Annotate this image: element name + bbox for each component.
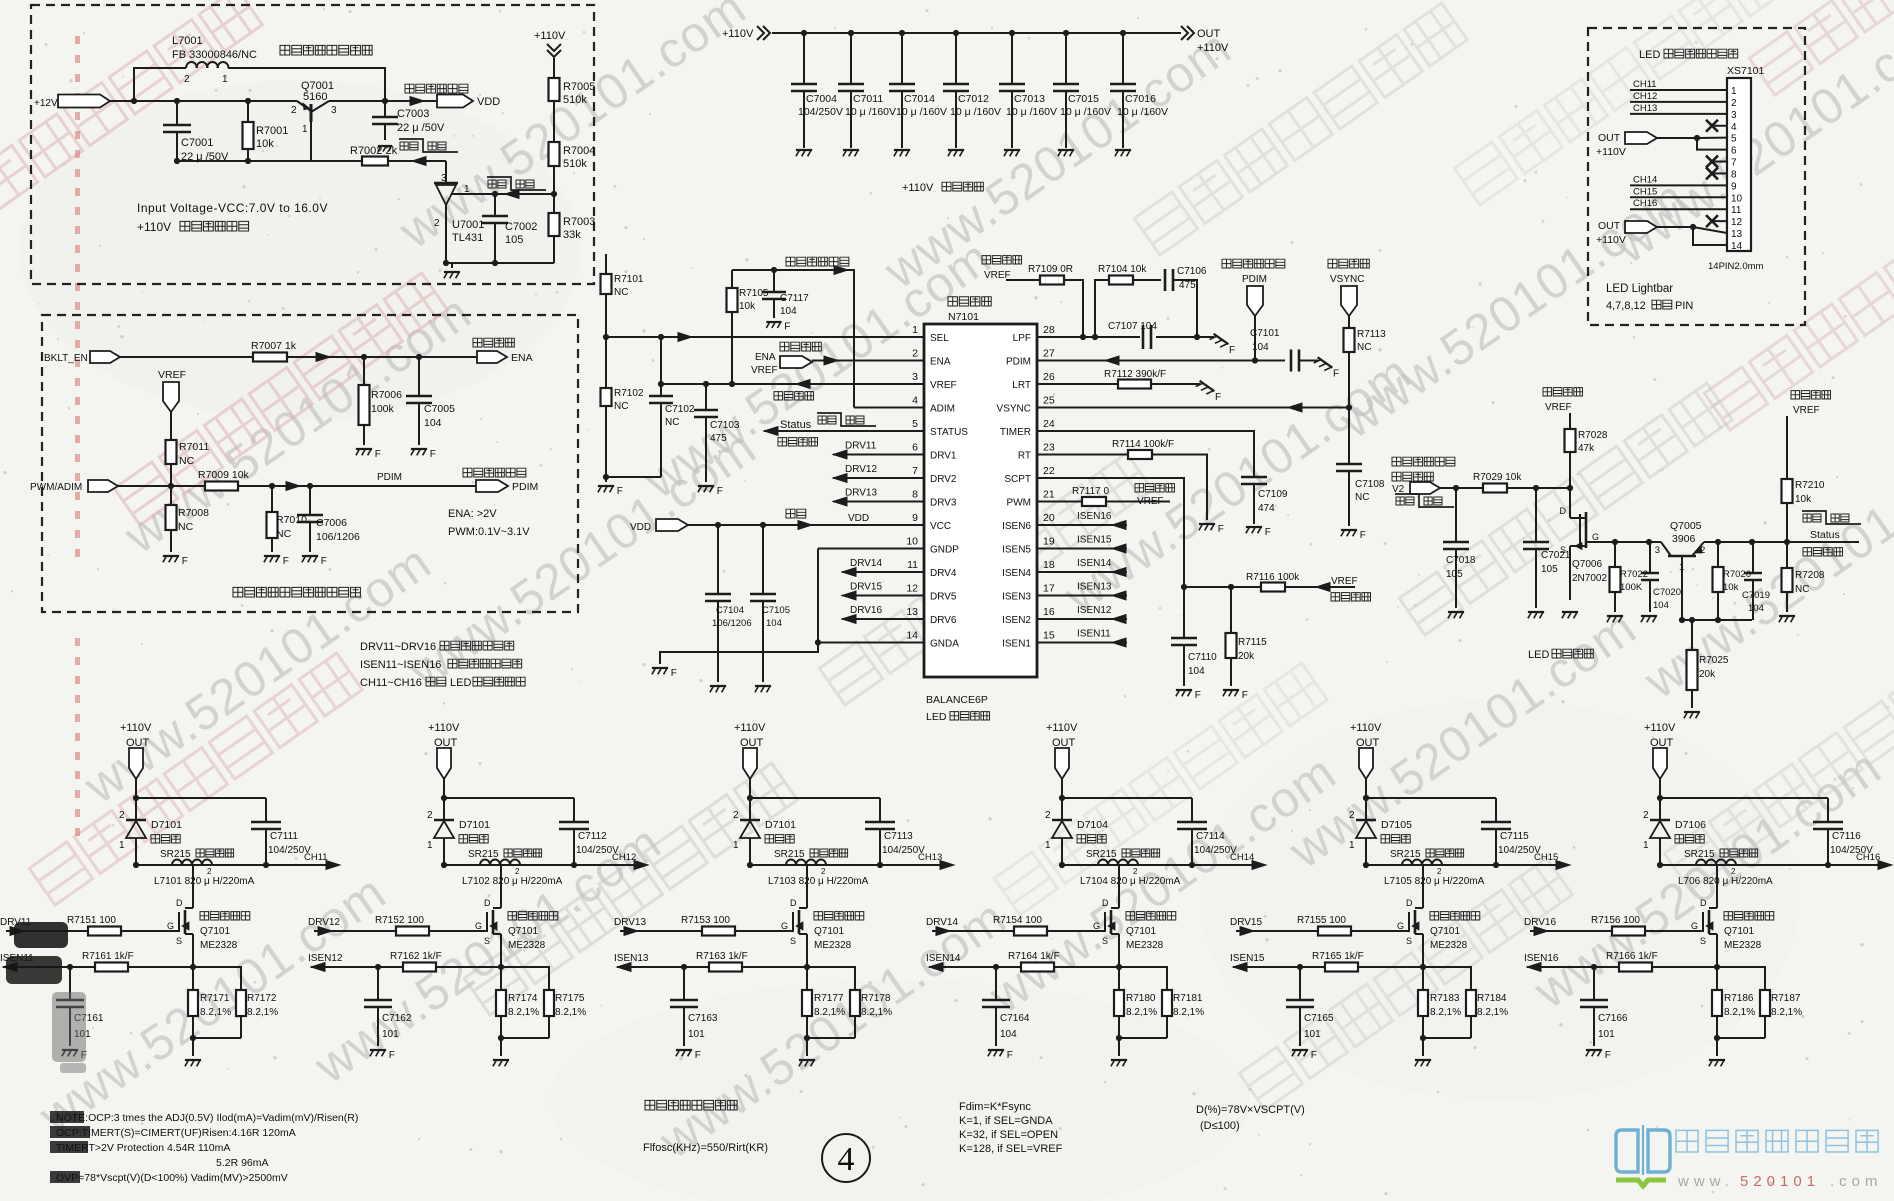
svg-text:ISEN5: ISEN5 [1002, 545, 1031, 556]
svg-text:VDD: VDD [630, 522, 651, 533]
svg-text:510k: 510k [563, 94, 587, 106]
node CH16 output [1878, 861, 1892, 870]
svg-text:104: 104 [424, 417, 442, 429]
svg-text:R7113: R7113 [1357, 329, 1386, 340]
resistor R7011 [170, 439, 172, 441]
svg-text:F: F [321, 556, 327, 567]
svg-text:4: 4 [1731, 122, 1737, 133]
inductor L7104 [1098, 860, 1108, 865]
svg-text:D7105: D7105 [1381, 819, 1412, 831]
label driver circuit title [948, 297, 991, 306]
svg-text:CH15: CH15 [1534, 852, 1558, 863]
wire source resistor bus [1118, 1016, 1120, 1038]
svg-text:+110V: +110V [120, 722, 152, 734]
svg-text:ISEN4: ISEN4 [1002, 568, 1031, 579]
svg-text:2: 2 [1731, 98, 1737, 109]
resistor R7028 [1569, 413, 1571, 429]
svg-text:LED: LED [450, 677, 471, 689]
wire status line left [1586, 541, 1661, 543]
capacitor C7004 [801, 30, 807, 36]
inductor L7102 [480, 860, 490, 865]
svg-text:12: 12 [1731, 217, 1743, 228]
svg-text:15: 15 [1043, 630, 1055, 642]
svg-text:C7005: C7005 [424, 403, 455, 415]
label thyristor protect text [1392, 457, 1455, 466]
svg-text:VREF: VREF [1331, 576, 1358, 587]
svg-text:PDIM: PDIM [377, 472, 402, 483]
svg-text:3: 3 [1731, 110, 1737, 121]
svg-text:475: 475 [1179, 280, 1196, 291]
svg-text:105: 105 [1446, 569, 1463, 580]
svg-text:47k: 47k [1578, 443, 1595, 454]
svg-text:28: 28 [1043, 324, 1055, 336]
svg-text:R7008: R7008 [178, 507, 209, 519]
mosfet Q7101 CH15 [1422, 865, 1424, 908]
svg-text:C7166: C7166 [1598, 1013, 1628, 1024]
svg-text:101: 101 [1598, 1029, 1615, 1040]
svg-text:DRV13: DRV13 [845, 488, 877, 499]
ground [766, 321, 781, 323]
svg-text:R7166 1k/F: R7166 1k/F [1606, 951, 1658, 962]
svg-text:9: 9 [1731, 181, 1737, 192]
wire GNDA pin14 [818, 642, 924, 644]
shunt ref U7001 TL431 [445, 161, 447, 183]
resistor R7004 [553, 141, 555, 143]
svg-text:F: F [1195, 690, 1201, 701]
svg-text:S: S [176, 936, 182, 946]
wire LPF pin28 [1037, 336, 1140, 338]
svg-text:TIMER: TIMER [1000, 427, 1031, 438]
no-connect X pin 12 [1714, 220, 1727, 222]
svg-text:D: D [1406, 898, 1413, 908]
svg-text:DRV3: DRV3 [930, 498, 957, 509]
svg-text:1: 1 [1731, 86, 1737, 97]
svg-text:3: 3 [912, 371, 918, 383]
protect/normal annotation [1803, 514, 1821, 522]
svg-text:CH11: CH11 [1633, 79, 1657, 90]
connector ENA output [477, 351, 507, 363]
svg-text:C7165: C7165 [1304, 1013, 1334, 1024]
svg-text:OVP=78*Vscpt(V)(D<100%) Va: OVP=78*Vscpt(V)(D<100%) Vadim(MV)>2500mV [56, 1172, 288, 1184]
svg-text:D7106: D7106 [1675, 819, 1706, 831]
svg-text:Status: Status [1810, 529, 1840, 541]
svg-text:C7104: C7104 [716, 605, 744, 616]
svg-text:R7102: R7102 [614, 388, 644, 399]
svg-text:D7101: D7101 [459, 819, 490, 831]
capacitor C7109 [1253, 476, 1255, 478]
svg-text:NC: NC [1357, 342, 1371, 353]
svg-text:S: S [484, 936, 490, 946]
svg-text:DRV5: DRV5 [930, 592, 957, 603]
svg-text:R7174: R7174 [508, 993, 538, 1004]
svg-text:R7006: R7006 [371, 389, 402, 401]
svg-text:L7103 820 μ H/220mA: L7103 820 μ H/220mA [768, 876, 869, 887]
svg-text:G: G [1691, 921, 1698, 931]
svg-text:R7161 1k/F: R7161 1k/F [82, 951, 134, 962]
svg-text:C7162: C7162 [382, 1013, 412, 1024]
wire lower rail [1062, 864, 1258, 866]
svg-text:F: F [1265, 527, 1271, 538]
capacitor C7002 [492, 191, 498, 197]
svg-text:19: 19 [1043, 536, 1055, 548]
svg-text:VREF: VREF [930, 380, 957, 391]
resistor R7187 [1717, 967, 1765, 990]
svg-text:D: D [1700, 898, 1707, 908]
svg-text:OUT: OUT [1598, 220, 1621, 232]
svg-text:12: 12 [906, 583, 918, 595]
resistor R7184 [1423, 967, 1471, 990]
svg-text:C7002: C7002 [505, 221, 537, 233]
label reference voltage VREF [982, 256, 1022, 264]
svg-text:2: 2 [821, 867, 826, 876]
resistor R7022 [1614, 542, 1616, 567]
resistor R7183 [1422, 967, 1424, 990]
svg-text:25: 25 [1043, 395, 1055, 407]
ground [1586, 1049, 1602, 1051]
svg-text:+110V: +110V [1596, 146, 1626, 158]
capacitor C7013 [1009, 30, 1015, 36]
svg-text:PDIM: PDIM [1242, 274, 1267, 285]
svg-text:2N7002: 2N7002 [1572, 573, 1607, 584]
svg-text:2: 2 [1349, 810, 1355, 821]
svg-text:SR215: SR215 [468, 849, 499, 860]
svg-text:C7115: C7115 [1500, 831, 1529, 842]
svg-text:PWM/ADIM: PWM/ADIM [30, 482, 82, 493]
svg-text:F: F [182, 556, 188, 567]
svg-text:2: 2 [1045, 810, 1051, 821]
diode D7104 freewheel [1061, 798, 1063, 820]
svg-text:R7208: R7208 [1795, 570, 1825, 581]
svg-text:104: 104 [780, 306, 797, 317]
wire to pin 14 [1693, 227, 1727, 245]
svg-text:OCP:TIMERT(S)=CIMERT(UF)Risen:: OCP:TIMERT(S)=CIMERT(UF)Risen:4.16R 120m… [56, 1127, 296, 1139]
svg-text:16: 16 [1043, 606, 1055, 618]
svg-text:Input Voltage-VCC:7.0V to 16.0: Input Voltage-VCC:7.0V to 16.0V [137, 201, 328, 215]
svg-text:ME2328: ME2328 [1724, 940, 1762, 951]
svg-text:ENA: ENA [511, 352, 533, 364]
capacitor C7020 [1649, 542, 1651, 573]
svg-text:R7114 100k/F: R7114 100k/F [1112, 439, 1174, 450]
capacitor C7014 [899, 30, 905, 36]
wire lower rail [1366, 864, 1562, 866]
svg-text:STATUS: STATUS [930, 427, 968, 438]
capacitor C7108 [1348, 408, 1350, 465]
svg-text:ISEN14: ISEN14 [1077, 558, 1112, 569]
svg-text:LRT: LRT [1012, 380, 1031, 391]
node CH12 output [634, 861, 648, 870]
node VREF pullup [1543, 388, 1583, 396]
svg-text:SR215: SR215 [774, 849, 805, 860]
wire SCPT pin22 [1037, 478, 1184, 587]
connector PDIM input [1222, 259, 1285, 268]
svg-text:10 μ /160V: 10 μ /160V [1060, 106, 1111, 118]
ground [493, 1059, 509, 1061]
svg-text:C7111: C7111 [270, 831, 298, 842]
svg-text:NC: NC [178, 521, 194, 533]
svg-text:106/1206: 106/1206 [316, 531, 360, 543]
svg-text:F: F [617, 486, 623, 497]
resistor R7180 [1118, 967, 1120, 990]
svg-text:10 μ /160V: 10 μ /160V [950, 106, 1001, 118]
svg-text:2: 2 [1731, 867, 1736, 876]
svg-text:10 μ /160V: 10 μ /160V [896, 106, 947, 118]
wire status line right [1704, 541, 1859, 543]
svg-text:R7029 10k: R7029 10k [1473, 472, 1522, 483]
svg-text:Q7006: Q7006 [1572, 559, 1602, 570]
svg-text:NC: NC [1795, 584, 1809, 595]
svg-text:1: 1 [119, 840, 125, 851]
svg-text:22: 22 [1043, 465, 1055, 477]
svg-text:CH12: CH12 [612, 852, 636, 863]
wire lower rail [444, 864, 640, 866]
svg-text:10 μ /160V: 10 μ /160V [1006, 106, 1057, 118]
logo green underline [1616, 1180, 1666, 1186]
capacitor C7164 [995, 967, 997, 1000]
svg-text:.com: .com [1830, 1173, 1883, 1190]
svg-text:2: 2 [427, 810, 433, 821]
svg-text:104: 104 [766, 618, 782, 629]
ground [843, 149, 859, 151]
ground [1196, 381, 1215, 397]
capacitor C7113 [879, 798, 881, 822]
ground [1246, 526, 1262, 528]
capacitor C7166 [1593, 967, 1595, 1000]
svg-text:R7162 1k/F: R7162 1k/F [390, 951, 442, 962]
svg-text:D: D [484, 898, 491, 908]
wire V2 line [1440, 487, 1483, 489]
wire ref pin [451, 193, 554, 195]
svg-text:LED: LED [1639, 49, 1660, 61]
resistor R7178 [807, 967, 855, 990]
svg-text:SEL: SEL [930, 333, 949, 344]
channel 1 scanner smudges [14, 922, 68, 948]
svg-text:R7152 100: R7152 100 [375, 915, 424, 926]
mosfet Q7006 [1569, 488, 1571, 518]
svg-text:C7164: C7164 [1000, 1013, 1030, 1024]
svg-text:R7025: R7025 [1699, 655, 1729, 666]
diode D7101 freewheel [443, 798, 445, 820]
svg-text:+110V: +110V [722, 28, 754, 40]
svg-text:14PIN2.0mm: 14PIN2.0mm [1708, 261, 1764, 272]
svg-text:ENA: >2V: ENA: >2V [448, 508, 497, 520]
svg-text:NOTE:OCP:3 tmes the ADJ(0.5V): NOTE:OCP:3 tmes the ADJ(0.5V) Ilod(mA)=V… [56, 1112, 358, 1124]
svg-text:1: 1 [1643, 840, 1649, 851]
svg-text:F: F [695, 1050, 701, 1061]
ground [796, 149, 812, 151]
ground [163, 555, 179, 557]
node on rail [131, 98, 137, 104]
svg-text:G: G [1397, 921, 1404, 931]
mosfet Q7101 CH12 [500, 865, 502, 908]
ground [1115, 149, 1131, 151]
ground [1562, 611, 1578, 613]
svg-text:XS7101: XS7101 [1727, 65, 1765, 77]
svg-text:F: F [1242, 690, 1248, 701]
svg-text:G: G [1592, 532, 1599, 542]
wire PDIM pin27 [1037, 360, 1285, 362]
svg-text:13: 13 [906, 606, 918, 618]
ground [1210, 334, 1229, 350]
svg-text:C7116: C7116 [1832, 831, 1861, 842]
svg-text:G: G [475, 921, 482, 931]
svg-text:DRV2: DRV2 [930, 474, 957, 485]
ground [411, 448, 427, 450]
ground [264, 555, 280, 557]
svg-text:SR215: SR215 [1390, 849, 1421, 860]
svg-text:104: 104 [1748, 603, 1764, 614]
svg-text:NC: NC [614, 401, 628, 412]
svg-text:520101: 520101 [1740, 1173, 1820, 1190]
svg-text:R7002 2k: R7002 2k [350, 145, 398, 157]
svg-text:105: 105 [505, 234, 523, 246]
svg-text:R7011: R7011 [179, 441, 209, 453]
capacitor C7016 [1120, 30, 1126, 36]
svg-text:D: D [790, 898, 797, 908]
svg-text:10k: 10k [256, 138, 274, 150]
svg-text:Q7101: Q7101 [200, 926, 230, 937]
svg-text:22 μ /50V: 22 μ /50V [397, 122, 445, 134]
svg-text:F: F [1311, 1050, 1317, 1061]
ground [710, 685, 726, 687]
svg-text:S: S [1700, 936, 1706, 946]
svg-text:8.2,1%: 8.2,1% [861, 1007, 892, 1018]
wire top rail [136, 797, 266, 799]
wire source to ground [1569, 546, 1571, 600]
svg-text:3: 3 [441, 173, 447, 184]
svg-text:18: 18 [1043, 559, 1055, 571]
wire VSYNC pin25 [1037, 407, 1349, 409]
inductor L7103 [786, 860, 796, 865]
svg-text:R7187: R7187 [1771, 993, 1801, 1004]
capacitor C7162 [377, 967, 379, 1000]
svg-text:R7172: R7172 [247, 993, 277, 1004]
ground [1314, 357, 1333, 373]
svg-text:VDD: VDD [848, 513, 869, 524]
svg-text:R7116 100k: R7116 100k [1246, 572, 1300, 583]
svg-text:5.2R 96mA: 5.2R 96mA [216, 1157, 269, 1169]
svg-text:F: F [283, 556, 289, 567]
svg-text:R7104 10k: R7104 10k [1098, 264, 1147, 275]
svg-text:474: 474 [1258, 503, 1275, 514]
capacitor C7005 [418, 357, 420, 396]
svg-text:PDIM: PDIM [1006, 357, 1031, 368]
svg-text:R7022: R7022 [1620, 569, 1648, 580]
svg-text:2: 2 [1437, 867, 1442, 876]
svg-text:S: S [1560, 545, 1566, 555]
svg-text:DRV14: DRV14 [926, 917, 958, 928]
svg-text:L706 820 μ H/220mA: L706 820 μ H/220mA [1678, 876, 1773, 887]
svg-text:+110V: +110V [1350, 722, 1382, 734]
ground [948, 149, 964, 151]
svg-text:14: 14 [906, 630, 918, 642]
wire R7109 to LPF [1064, 280, 1083, 337]
svg-text:8.2,1%: 8.2,1% [247, 1007, 278, 1018]
svg-text:F: F [1333, 369, 1339, 380]
svg-text:101: 101 [688, 1029, 705, 1040]
capacitor C7105 [762, 525, 764, 594]
resistor R7006 [363, 357, 365, 385]
svg-text:14: 14 [1731, 241, 1743, 252]
svg-text:LED: LED [926, 711, 947, 723]
svg-text:33k: 33k [563, 229, 581, 241]
label current-balance output circuit [645, 1100, 737, 1110]
label status detect [1803, 548, 1843, 556]
label digital brightness adjust [463, 468, 526, 477]
svg-text:Q7101: Q7101 [814, 926, 844, 937]
svg-text:ISEN15: ISEN15 [1077, 535, 1112, 546]
protect/normal annotation 2 [488, 180, 506, 188]
resistor R7105 [731, 270, 733, 288]
svg-text:8.2,1%: 8.2,1% [508, 1007, 539, 1018]
svg-text:21: 21 [1043, 489, 1055, 501]
ground [1684, 711, 1700, 713]
wire RT pin23 [1037, 454, 1128, 456]
ground [988, 1049, 1004, 1051]
svg-text:DRV12: DRV12 [308, 917, 340, 928]
connector PDIM output [476, 480, 508, 492]
svg-text:C7021: C7021 [1541, 550, 1571, 561]
svg-text:GNDA: GNDA [930, 639, 959, 650]
svg-text:C7019: C7019 [1742, 590, 1770, 601]
svg-text:RT: RT [1018, 451, 1031, 462]
ground [1199, 523, 1215, 525]
connector XS7101 body [1727, 78, 1751, 251]
wire top rail [1660, 797, 1828, 799]
ground [451, 263, 453, 268]
resistor R7003 [553, 212, 555, 214]
wire source resistor bus [1716, 1016, 1718, 1038]
svg-text:C7110: C7110 [1188, 652, 1217, 663]
resistor R7115 [1230, 587, 1232, 633]
svg-text:NC: NC [276, 528, 292, 540]
svg-text:F: F [671, 668, 677, 679]
svg-text:R7178: R7178 [861, 993, 891, 1004]
capacitor C7012 [953, 30, 959, 36]
svg-text:ENA: ENA [755, 352, 776, 363]
svg-text:2: 2 [515, 867, 520, 876]
resistor R7174 [500, 967, 502, 990]
capacitor C7018 [1455, 488, 1457, 542]
svg-text:L7101 820 μ H/220mA: L7101 820 μ H/220mA [154, 876, 255, 887]
ground [1292, 1049, 1308, 1051]
svg-text:26: 26 [1043, 371, 1055, 383]
mosfet Q7101 CH16 [1716, 865, 1718, 908]
wire collector down [1681, 556, 1683, 620]
svg-text:R7153 100: R7153 100 [681, 915, 730, 926]
svg-text:F: F [430, 449, 436, 460]
svg-text:11: 11 [907, 559, 918, 571]
svg-text:6: 6 [912, 442, 918, 454]
wire VREF net pin3 [661, 383, 924, 385]
svg-text:1: 1 [222, 74, 228, 85]
svg-text:R7175: R7175 [555, 993, 585, 1004]
svg-text:SR215: SR215 [1684, 849, 1715, 860]
svg-text:20k: 20k [1699, 669, 1716, 680]
ground [62, 1049, 78, 1051]
svg-text:Fdim=K*Fsync: Fdim=K*Fsync [959, 1101, 1031, 1113]
svg-text:1: 1 [1045, 840, 1051, 851]
svg-text:ISEN2: ISEN2 [1002, 615, 1031, 626]
logo book icon [1616, 1130, 1638, 1172]
capacitor C7011 [848, 30, 854, 36]
svg-text:+12V: +12V [34, 98, 58, 109]
svg-text:2: 2 [119, 810, 125, 821]
svg-text:R7155 100: R7155 100 [1297, 915, 1346, 926]
ground [1779, 615, 1795, 617]
no-connect X pin 4 [1714, 125, 1727, 127]
svg-text:(D≤100): (D≤100) [1200, 1120, 1240, 1132]
wire top rail [750, 797, 880, 799]
